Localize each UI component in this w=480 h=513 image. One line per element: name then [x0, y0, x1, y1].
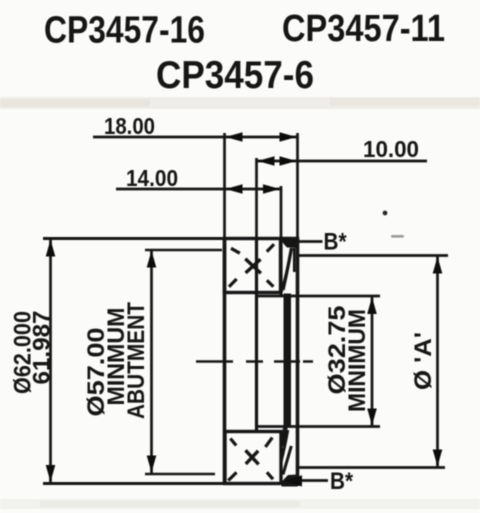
flange lip top (solid section) — [282, 237, 298, 248]
X mark bottom roller — [246, 450, 259, 464]
scan speck dot — [383, 211, 388, 216]
arrow dia57 bottom — [147, 456, 157, 473]
arrow 18.00 left — [226, 132, 243, 142]
roller pocket right line x=281 — [279, 238, 282, 295]
svg-text:18.00: 18.00 — [104, 113, 155, 139]
extension line x=297.5 above part — [296, 133, 299, 238]
arrow dia57 top — [147, 251, 157, 268]
dia A dimension line — [436, 256, 439, 467]
arrow B* bottom leader — [284, 475, 302, 486]
extension line x=281 (14.00) — [280, 186, 283, 240]
arrow 18.00 right — [280, 132, 297, 142]
svg-text:CP3457-6: CP3457-6 — [156, 54, 314, 97]
svg-text:61.987: 61.987 — [29, 311, 56, 385]
svg-text:Ø 'A': Ø 'A' — [410, 332, 437, 390]
leader line B* bottom — [295, 479, 328, 482]
flange hatch curve top A — [283, 248, 292, 290]
dia57 top extension — [145, 249, 222, 252]
part bottom face / dia62 bottom extension — [43, 482, 282, 485]
svg-text:CP3457-11: CP3457-11 — [282, 8, 445, 50]
arrow 10.00 right — [280, 156, 297, 166]
flange hatch curve top B — [282, 269, 288, 292]
extension line x=256.5 above part — [255, 158, 258, 239]
arrow dia A top — [433, 257, 443, 274]
arrow dia62 bottom — [46, 465, 56, 482]
part right edge x=297.5 — [296, 237, 300, 486]
part left edge — [223, 238, 227, 485]
svg-text:B*: B* — [324, 229, 348, 256]
arrowheads — [46, 132, 443, 486]
extension line x=224.5 above part — [223, 133, 226, 239]
part top face / dia62 top extension — [43, 237, 282, 240]
corner dashes top roller — [229, 244, 274, 286]
arrow 14.00 left — [226, 184, 243, 194]
flange hatch curve bottom D — [283, 446, 291, 475]
svg-text:14.00: 14.00 — [126, 165, 178, 191]
centerline (axis) — [196, 360, 313, 363]
dia32.75 dimension line — [371, 297, 374, 427]
race washer (thick section line) — [284, 294, 292, 428]
dia32.75 bottom extension / pocket line — [256, 425, 380, 428]
arrow dia32.75 top — [367, 297, 377, 314]
roller square bottom — [225, 432, 281, 484]
scan background noise band bottom — [0, 499, 480, 509]
leader line B* top — [299, 240, 323, 243]
dimension 14.00 line — [116, 188, 281, 191]
dimension 18.00 line — [93, 136, 298, 139]
flange hatch stub top — [293, 248, 296, 272]
arrow 10.00 left — [258, 156, 275, 166]
dia62 dimension line — [49, 239, 52, 482]
svg-text:ABUTMENT: ABUTMENT — [123, 302, 150, 419]
svg-text:MINIMUM: MINIMUM — [344, 309, 371, 412]
corner dashes bottom roller — [228, 438, 273, 481]
flange hatch curve bottom C — [283, 427, 286, 446]
roller square top — [225, 239, 281, 293]
dia A top extension — [298, 254, 448, 257]
arrow dia A bottom — [433, 450, 443, 467]
dia A bottom extension — [297, 466, 445, 469]
arrow 14.00 right — [263, 184, 280, 194]
X mark top roller — [245, 259, 261, 274]
arrow dia62 top — [46, 240, 56, 257]
svg-text:CP3457-16: CP3457-16 — [44, 10, 205, 52]
arrow dia32.75 bottom — [367, 409, 377, 426]
flange lip bottom (solid section) — [282, 475, 298, 487]
svg-text:10.00: 10.00 — [363, 136, 419, 162]
scan background noise band top — [0, 97, 480, 109]
dia57 dimension line — [150, 250, 153, 473]
dia57 bottom extension — [145, 473, 215, 476]
svg-text:B*: B* — [330, 468, 354, 495]
dia32.75 top extension / pocket line — [257, 295, 381, 298]
scan speck dash — [391, 235, 404, 238]
dimension 10.00 line — [257, 160, 427, 163]
sleeve line x=256.5 — [255, 238, 258, 430]
